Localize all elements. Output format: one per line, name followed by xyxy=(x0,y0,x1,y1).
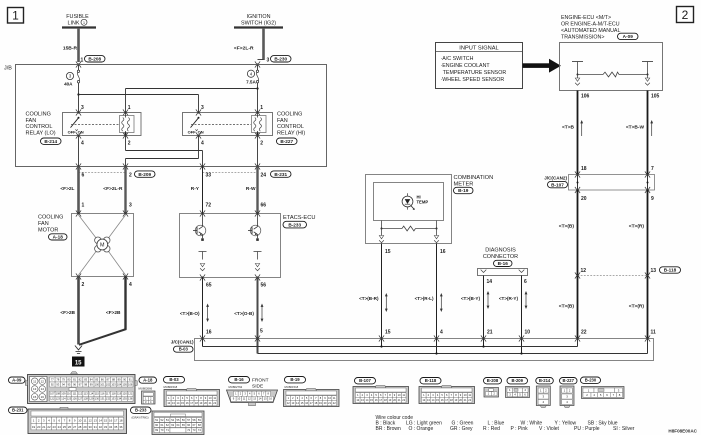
svg-text:28: 28 xyxy=(78,425,82,429)
label relay LO xyxy=(26,112,56,137)
twist arrow ETACS right xyxy=(261,304,264,323)
svg-text:126: 126 xyxy=(72,397,77,401)
svg-text:MOTOR: MOTOR xyxy=(38,227,58,233)
connector layout B-208 xyxy=(484,378,502,398)
svg-text:14: 14 xyxy=(99,418,103,422)
wire <F>2L-R from ignition switch xyxy=(262,28,265,60)
svg-text:15: 15 xyxy=(33,395,37,399)
svg-text:B-231: B-231 xyxy=(274,172,287,177)
svg-text:PU : Purple: PU : Purple xyxy=(574,426,600,432)
cooling fan motor A-18 xyxy=(72,214,134,277)
svg-text:<F>2L-R: <F>2L-R xyxy=(234,46,254,52)
meter inner display box xyxy=(374,183,444,221)
fusible link (1) xyxy=(62,14,96,28)
connector layout A-09 xyxy=(9,372,138,404)
label B-107 small xyxy=(548,181,568,187)
CAN2 connector symbols xyxy=(575,171,580,177)
svg-text:124: 124 xyxy=(61,397,66,401)
svg-text:115: 115 xyxy=(95,392,100,396)
svg-text:2: 2 xyxy=(128,140,131,146)
ETACS transistor at x=202.5 xyxy=(193,214,206,241)
svg-text:11: 11 xyxy=(651,330,657,336)
connector layout B-230 xyxy=(581,377,625,399)
ECU internal termination resistor xyxy=(572,62,653,77)
svg-text:3: 3 xyxy=(267,58,270,64)
svg-text:<AUTOMATED MANUAL: <AUTOMATED MANUAL xyxy=(561,28,620,34)
svg-text:21: 21 xyxy=(487,330,493,336)
svg-text:FAN: FAN xyxy=(38,221,49,227)
svg-text:<T>(B-Y): <T>(B-Y) xyxy=(461,296,481,301)
svg-text:J/C(CAN1): J/C(CAN1) xyxy=(171,339,194,344)
svg-text:40A: 40A xyxy=(64,81,73,86)
svg-text:123: 123 xyxy=(56,397,61,401)
svg-text:107: 107 xyxy=(50,392,55,396)
svg-text:10: 10 xyxy=(78,418,82,422)
svg-text:ON: ON xyxy=(78,130,84,135)
svg-text:TEMPERATURE SENSOR: TEMPERATURE SENSOR xyxy=(443,70,507,76)
svg-text:23: 23 xyxy=(53,425,57,429)
svg-text:117: 117 xyxy=(106,392,111,396)
svg-text:2: 2 xyxy=(129,173,132,179)
label B-208 xyxy=(85,56,106,62)
connector dashed pair B-231 xyxy=(203,172,258,174)
svg-text:<T>B-W: <T>B-W xyxy=(626,125,645,131)
label A-18 xyxy=(49,234,68,240)
svg-text:<T>(B-O): <T>(B-O) xyxy=(180,311,200,316)
input signal arrow xyxy=(523,63,550,68)
svg-text:21: 21 xyxy=(42,425,46,429)
svg-text:6: 6 xyxy=(524,279,527,285)
relay HI switch xyxy=(188,117,204,135)
svg-text:10: 10 xyxy=(525,330,531,336)
svg-text:MU802762: MU802762 xyxy=(229,385,243,389)
svg-text:65: 65 xyxy=(206,283,212,289)
bus wire CAN-L internal xyxy=(203,346,578,348)
svg-text:OR ENGINE-A-M/T-ECU: OR ENGINE-A-M/T-ECU xyxy=(561,21,620,27)
connector layout B-233 xyxy=(131,407,205,435)
svg-text:25: 25 xyxy=(63,425,67,429)
label B-19 xyxy=(454,187,474,193)
svg-text:17: 17 xyxy=(114,418,118,422)
svg-text:33: 33 xyxy=(104,425,108,429)
svg-text:116: 116 xyxy=(100,392,105,396)
wire fuse4 to relay LO pin1 xyxy=(126,88,258,90)
svg-text:<T>(R-L): <T>(R-L) xyxy=(415,296,434,301)
svg-text:SI : Silver: SI : Silver xyxy=(613,426,635,432)
wire <T>(B-O) xyxy=(202,278,204,347)
svg-text:COOLING: COOLING xyxy=(38,214,63,220)
svg-text:1: 1 xyxy=(260,105,263,111)
svg-text:56: 56 xyxy=(261,283,267,289)
wire fuse3 to relay HI pin3 xyxy=(79,94,199,96)
svg-text:16: 16 xyxy=(41,395,45,399)
connector dashed pair B-209 xyxy=(79,172,126,174)
svg-text:4: 4 xyxy=(440,330,443,336)
svg-text:15: 15 xyxy=(385,249,391,255)
svg-text:20: 20 xyxy=(581,196,587,202)
twist arrow diagnosis right xyxy=(525,291,528,309)
connector layout B-118 xyxy=(419,378,475,404)
svg-text:<T>(R): <T>(R) xyxy=(629,304,645,310)
relay cooling fan control (HI) B-227 xyxy=(183,113,273,136)
svg-text:129: 129 xyxy=(89,397,94,401)
svg-text:4: 4 xyxy=(201,140,204,146)
node fuse4 output xyxy=(256,87,258,89)
svg-text:RELAY (LO): RELAY (LO) xyxy=(26,130,56,136)
svg-text:METER: METER xyxy=(454,181,474,187)
fuse 4 7.5A xyxy=(246,65,259,113)
svg-text:22: 22 xyxy=(47,425,51,429)
svg-text:15: 15 xyxy=(104,418,108,422)
arrow CAN right up xyxy=(650,120,653,136)
wire <T>(B) trunk xyxy=(577,190,579,339)
svg-text:FAN: FAN xyxy=(26,118,37,124)
svg-text:IGNITION: IGNITION xyxy=(247,14,271,20)
relay LO coil xyxy=(120,113,135,136)
svg-text:14: 14 xyxy=(487,279,493,285)
svg-text:ETACS-ECU: ETACS-ECU xyxy=(283,215,315,221)
motor connector symbols bottom xyxy=(76,273,81,279)
bus wire CAN-H internal xyxy=(258,353,648,355)
svg-text:1: 1 xyxy=(81,58,84,64)
svg-text:3: 3 xyxy=(81,105,84,111)
svg-text:106: 106 xyxy=(581,94,590,100)
svg-text:111: 111 xyxy=(73,392,77,396)
wire <T>(B-Y) xyxy=(483,276,485,347)
wire <T>(R-L) xyxy=(436,244,438,354)
svg-text:B-16: B-16 xyxy=(498,261,509,266)
wire <F>2B left xyxy=(77,277,80,345)
B-118 dashed link xyxy=(578,275,648,277)
svg-text:B-03: B-03 xyxy=(179,347,189,352)
svg-text:B-209: B-209 xyxy=(138,172,151,177)
svg-text:136: 136 xyxy=(128,397,133,401)
wire <T>B upper xyxy=(577,91,579,175)
wire 15B-R xyxy=(77,28,80,62)
label cooling fan motor xyxy=(38,214,63,233)
svg-text:12: 12 xyxy=(41,379,45,383)
connector layout B-19 xyxy=(284,377,340,407)
svg-text:9: 9 xyxy=(651,196,654,202)
svg-text:128: 128 xyxy=(84,397,89,401)
svg-text:4: 4 xyxy=(129,282,132,288)
label B-214 xyxy=(41,138,62,144)
motor connector symbols top xyxy=(76,210,81,216)
input signal box xyxy=(436,43,523,89)
svg-text:A-18: A-18 xyxy=(143,378,153,383)
svg-text:106: 106 xyxy=(128,382,133,386)
svg-text:120: 120 xyxy=(122,392,127,396)
svg-text:J/C(CAN2): J/C(CAN2) xyxy=(544,176,567,181)
svg-text:102: 102 xyxy=(106,382,111,386)
svg-text:COOLING: COOLING xyxy=(26,112,51,118)
svg-text:132: 132 xyxy=(106,397,111,401)
svg-text:103: 103 xyxy=(111,382,116,386)
label B-227 xyxy=(277,138,298,144)
svg-text:32: 32 xyxy=(99,425,103,429)
svg-text:4: 4 xyxy=(81,140,84,146)
svg-text:12: 12 xyxy=(88,418,92,422)
svg-text:7: 7 xyxy=(651,166,654,172)
svg-text:72: 72 xyxy=(206,203,212,209)
combination meter B-19 box xyxy=(366,175,452,244)
svg-text:125: 125 xyxy=(67,397,72,401)
svg-text:36: 36 xyxy=(119,425,123,429)
svg-text:11: 11 xyxy=(83,418,86,422)
svg-text:108: 108 xyxy=(56,392,61,396)
svg-text:R-W: R-W xyxy=(246,186,256,192)
ETACS transistor at x=257.5 xyxy=(248,214,261,241)
svg-text:B-231: B-231 xyxy=(12,408,24,413)
svg-text:B-230: B-230 xyxy=(585,378,597,383)
joint connector J/C(CAN2) B-107 xyxy=(569,175,655,191)
svg-text:TRANSMISSION>: TRANSMISSION> xyxy=(561,34,604,40)
wire <T>(O-B) xyxy=(257,278,259,354)
twist arrow ETACS left xyxy=(206,304,209,323)
svg-text:CONTROL: CONTROL xyxy=(26,124,53,130)
page marker 1 xyxy=(8,8,24,24)
wire relay HI pin2 to J/B pin24 xyxy=(257,136,259,167)
svg-text:DIAGNOSIS: DIAGNOSIS xyxy=(485,248,516,254)
svg-text:<T>(O-B): <T>(O-B) xyxy=(234,311,254,316)
svg-text:100: 100 xyxy=(95,382,100,386)
svg-text:66: 66 xyxy=(261,203,267,209)
diagnosis connector bar xyxy=(478,269,528,276)
motor M symbol xyxy=(95,237,110,252)
bus junction nodes CAN-H xyxy=(435,352,437,354)
svg-text:110: 110 xyxy=(67,392,72,396)
svg-text:130: 130 xyxy=(95,397,100,401)
connector layout B-209 xyxy=(506,378,530,398)
svg-text:B-227: B-227 xyxy=(563,378,575,383)
svg-text:3: 3 xyxy=(201,105,204,111)
svg-text:26: 26 xyxy=(68,425,72,429)
svg-text:133: 133 xyxy=(111,397,116,401)
wire <F>2L xyxy=(77,167,80,214)
svg-text:<T>(B): <T>(B) xyxy=(559,224,575,230)
svg-text:GR : Grey: GR : Grey xyxy=(450,426,473,432)
ignition switch (IG2) xyxy=(234,14,283,28)
label relay HI xyxy=(277,112,305,137)
svg-text:121: 121 xyxy=(128,392,133,396)
svg-text:B-214: B-214 xyxy=(44,139,57,144)
svg-text:<F>2B: <F>2B xyxy=(106,310,121,316)
J/B exit connector symbols xyxy=(76,163,81,169)
ETACS internal joint at x=202.5 xyxy=(199,252,207,271)
wire colour code line 2 xyxy=(376,426,635,432)
svg-text:109: 109 xyxy=(61,392,66,396)
svg-text:A-09: A-09 xyxy=(623,34,634,39)
wire <F>2L-R to motor xyxy=(124,167,126,214)
svg-text:113: 113 xyxy=(84,392,89,396)
svg-text:12: 12 xyxy=(581,268,587,274)
relay cooling fan control (LO) B-214 xyxy=(63,113,142,136)
ECU internal joints xyxy=(577,75,579,79)
label B-03 small xyxy=(174,346,194,352)
svg-text:127: 127 xyxy=(78,397,83,401)
svg-text:B-19: B-19 xyxy=(458,188,469,193)
svg-text:20: 20 xyxy=(37,425,41,429)
svg-text:105: 105 xyxy=(122,382,127,386)
svg-text:11: 11 xyxy=(33,379,36,383)
svg-text:19: 19 xyxy=(32,425,36,429)
svg-text:CONTROL: CONTROL xyxy=(277,124,304,130)
svg-text:FRONT: FRONT xyxy=(252,378,269,384)
motor internal cross wires xyxy=(79,215,98,240)
svg-text:FUSIBLE: FUSIBLE xyxy=(66,14,89,20)
svg-text:R : Red: R : Red xyxy=(483,426,500,432)
CAN2 internal wires xyxy=(577,175,579,191)
svg-text:13: 13 xyxy=(651,268,657,274)
svg-text:16: 16 xyxy=(206,330,212,336)
svg-text:·A/C SWITCH: ·A/C SWITCH xyxy=(441,56,474,62)
wire relay LO pin2 to J/B pin33 xyxy=(125,136,127,151)
svg-text:MU801518: MU801518 xyxy=(285,385,299,389)
svg-text:R-Y: R-Y xyxy=(191,186,200,192)
svg-text:B-214: B-214 xyxy=(539,378,551,383)
twist arrow meter right xyxy=(440,293,443,312)
connector layout B-214 xyxy=(536,378,554,408)
svg-text:·WHEEL SPEED SENSOR: ·WHEEL SPEED SENSOR xyxy=(441,77,505,83)
fuse 3 40A xyxy=(64,65,80,113)
label B-230 xyxy=(271,56,292,62)
svg-text:131: 131 xyxy=(100,397,105,401)
svg-text:(GRAY/TRIG): (GRAY/TRIG) xyxy=(132,415,149,419)
svg-text:135: 135 xyxy=(122,397,127,401)
svg-text:<F>2B: <F>2B xyxy=(60,310,75,316)
svg-text:B-209: B-209 xyxy=(512,378,524,383)
svg-text:MU802666: MU802666 xyxy=(139,386,153,390)
svg-text:24: 24 xyxy=(261,173,267,179)
svg-text:OFF: OFF xyxy=(188,130,197,135)
svg-text:ENGINE-ECU <M/T>: ENGINE-ECU <M/T> xyxy=(561,15,611,21)
wire <T>(R) trunk xyxy=(647,190,649,339)
connector layout B-16 xyxy=(227,377,278,406)
HI TEMP indicator lamp xyxy=(402,193,415,210)
label B-233 xyxy=(283,221,307,228)
svg-text:<T>B: <T>B xyxy=(562,125,575,131)
svg-text:1: 1 xyxy=(82,202,85,208)
connector symbol B-230 xyxy=(255,61,260,67)
svg-text:CONNECTOR: CONNECTOR xyxy=(483,254,518,260)
svg-text:30: 30 xyxy=(88,425,92,429)
svg-text:SWITCH (IG2): SWITCH (IG2) xyxy=(241,20,276,26)
svg-text:34: 34 xyxy=(109,425,113,429)
svg-text:·ENGINE COOLANT: ·ENGINE COOLANT xyxy=(441,63,491,69)
svg-text:114: 114 xyxy=(89,392,94,396)
svg-text:2: 2 xyxy=(682,8,689,22)
svg-text:B-03: B-03 xyxy=(169,377,179,382)
wire <T>B-W upper xyxy=(647,91,649,175)
label B-16 xyxy=(494,260,513,266)
svg-text:18: 18 xyxy=(119,418,123,422)
svg-text:15: 15 xyxy=(385,330,391,336)
svg-text:3: 3 xyxy=(129,202,132,208)
svg-text:A-18: A-18 xyxy=(53,235,64,240)
svg-text:35: 35 xyxy=(114,425,118,429)
svg-text:122: 122 xyxy=(50,397,55,401)
svg-text:13: 13 xyxy=(33,387,37,391)
label engine ECU xyxy=(561,15,620,41)
relay LO contact dashed link xyxy=(71,124,119,126)
svg-text:16: 16 xyxy=(109,418,113,422)
svg-text:15: 15 xyxy=(75,361,82,367)
svg-text:24: 24 xyxy=(58,425,62,429)
svg-text:134: 134 xyxy=(117,397,122,401)
svg-text:H8F08E00AC: H8F08E00AC xyxy=(668,428,697,433)
svg-text:<T>(R): <T>(R) xyxy=(629,224,645,230)
svg-text:B-208: B-208 xyxy=(487,378,499,383)
svg-text:33: 33 xyxy=(206,173,212,179)
svg-text:105: 105 xyxy=(651,94,660,100)
svg-text:B-208: B-208 xyxy=(88,56,101,61)
twist arrow meter left xyxy=(385,293,388,312)
svg-text:15B-R: 15B-R xyxy=(63,46,78,52)
ETACS-ECU B-233 box xyxy=(180,214,281,278)
svg-text:SIDE: SIDE xyxy=(252,384,263,390)
svg-text:7.5A: 7.5A xyxy=(246,80,256,85)
svg-text:COMBINATION: COMBINATION xyxy=(454,175,494,181)
bus entry stubs xyxy=(577,339,579,347)
ETACS connector symbols bottom xyxy=(200,274,205,280)
svg-text:B-16: B-16 xyxy=(234,377,244,382)
svg-text:118: 118 xyxy=(111,392,116,396)
svg-text:J/B: J/B xyxy=(4,66,12,72)
svg-text:B-233: B-233 xyxy=(135,408,147,413)
svg-text:LINK: LINK xyxy=(68,20,80,26)
svg-text:6: 6 xyxy=(82,173,85,179)
svg-text:112: 112 xyxy=(78,392,83,396)
svg-text:OFF: OFF xyxy=(68,130,77,135)
B-118 connector symbols xyxy=(575,272,580,278)
svg-text:O : Orange: O : Orange xyxy=(409,426,434,432)
junction block J/B xyxy=(16,65,327,167)
wire <T>(R-Y) xyxy=(521,276,523,354)
connector layout B-03 xyxy=(164,377,220,407)
connector layout A-18 xyxy=(139,377,157,404)
diagnosis connector B-16 xyxy=(483,248,518,261)
ETACS internal joint at x=257.5 xyxy=(254,252,262,271)
svg-text:1: 1 xyxy=(12,9,19,23)
svg-text:COOLING: COOLING xyxy=(277,112,302,118)
svg-text:B-233: B-233 xyxy=(288,222,301,227)
svg-text:A-09: A-09 xyxy=(12,378,22,383)
bus junction nodes CAN-L xyxy=(380,345,382,347)
wire <T>(B-R) xyxy=(381,244,383,347)
svg-text:RELAY (HI): RELAY (HI) xyxy=(277,130,305,136)
svg-text:2: 2 xyxy=(82,282,85,288)
svg-text:B-227: B-227 xyxy=(280,139,293,144)
relay HI coil xyxy=(252,113,267,136)
svg-text:27: 27 xyxy=(73,425,77,429)
svg-text:V : Violet: V : Violet xyxy=(539,426,560,432)
svg-text:13: 13 xyxy=(94,418,98,422)
svg-text:104: 104 xyxy=(117,382,122,386)
svg-text:5: 5 xyxy=(260,329,263,335)
wire R-Y xyxy=(202,167,204,214)
svg-text:BR : Brown: BR : Brown xyxy=(376,426,402,432)
svg-text:<T>(B-R): <T>(B-R) xyxy=(359,296,379,301)
svg-text:101: 101 xyxy=(100,382,105,386)
svg-text:M: M xyxy=(100,243,105,249)
joint connector J/C(CAN1) B-03 box xyxy=(195,339,654,361)
bus entry connector symbols xyxy=(200,335,205,341)
relay LO switch xyxy=(68,117,84,135)
svg-text:16: 16 xyxy=(440,249,446,255)
meter internal resistor xyxy=(381,221,438,231)
connector layout B-231 xyxy=(9,407,127,434)
svg-text:B-118: B-118 xyxy=(664,268,677,273)
